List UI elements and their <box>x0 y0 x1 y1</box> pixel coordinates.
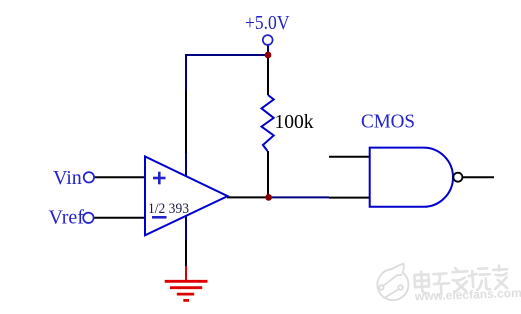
svg-text:1/2 393: 1/2 393 <box>148 201 189 217</box>
svg-text:CMOS: CMOS <box>361 111 415 133</box>
svg-text:100k: 100k <box>275 112 314 133</box>
svg-text:+5.0V: +5.0V <box>245 13 290 34</box>
svg-text:Vref: Vref <box>49 207 85 229</box>
svg-text:Vin: Vin <box>53 167 82 189</box>
